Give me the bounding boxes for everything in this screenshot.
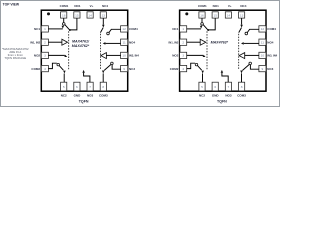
driver buffer B (IN3, IN4) U2 <box>239 53 245 59</box>
switch SW4 position arrow U1 <box>102 25 105 28</box>
switch SW4 pivot circle U1 <box>107 32 110 35</box>
svg-text:6: 6 <box>76 85 78 89</box>
wire NC3 to SW3 U1 <box>112 65 121 69</box>
svg-text:12: 12 <box>261 27 265 31</box>
pin 9 box (NC3) <box>121 65 128 71</box>
svg-text:GND: GND <box>212 93 220 97</box>
pin 4 box (COM2) <box>41 65 48 71</box>
svg-text:IN3, IN4: IN3, IN4 <box>267 54 277 58</box>
pin 14 box (V+) <box>225 12 231 18</box>
pin 11 box (NO4) <box>259 39 266 45</box>
switch SW3 pivot circle U2 <box>249 62 252 65</box>
svg-text:NO1: NO1 <box>213 4 220 8</box>
pin 6 box (GND) <box>74 82 80 91</box>
pin 16 box (COM1) <box>61 12 67 18</box>
svg-text:4: 4 <box>44 67 46 71</box>
pin 8 box (COM3) <box>100 82 106 91</box>
control line IN1 dashed U1 <box>68 31 70 69</box>
svg-text:NC1: NC1 <box>34 27 40 31</box>
svg-text:9: 9 <box>262 67 264 71</box>
pin 1 box (NC1) <box>180 26 187 32</box>
wire COM4 to SW4 U1 <box>109 29 121 32</box>
wire IN1 to buffer A U2 <box>187 41 201 43</box>
svg-text:14: 14 <box>88 14 92 18</box>
pin 3 box (NO2) <box>41 52 48 58</box>
svg-text:10: 10 <box>122 54 126 58</box>
contact NO1 junction dot U2 <box>207 29 209 31</box>
wire NC2 stem U2 <box>202 74 204 83</box>
switch SW3 pivot circle U1 <box>111 62 114 65</box>
pin 9 box (NC3) <box>259 65 266 71</box>
svg-text:NC4: NC4 <box>240 4 246 8</box>
svg-text:NC3: NC3 <box>267 67 273 71</box>
switch SW1 pivot circle U2 <box>201 23 204 26</box>
switch SW2 pivot circle U2 <box>195 63 198 66</box>
figure border frame <box>1 1 280 107</box>
wire NO3 stem U2 <box>222 73 228 83</box>
pin 7 box (NO3) <box>225 82 231 91</box>
svg-text:MAX4762*: MAX4762* <box>72 44 90 48</box>
svg-text:11: 11 <box>261 40 264 44</box>
wire COM1 stem U1 <box>63 18 65 22</box>
svg-text:4: 4 <box>182 67 184 71</box>
pin 3 box (NO2) <box>180 52 187 58</box>
svg-text:COM2: COM2 <box>31 67 40 71</box>
svg-text:MAX4761/: MAX4761/ <box>72 39 90 43</box>
pin 1 indicator dot U1 <box>47 12 50 15</box>
svg-text:TQFN: TQFN <box>217 100 227 104</box>
driver buffer A (IN1, IN2) U1 <box>62 39 68 45</box>
pin 12 box (COM4) <box>121 26 128 32</box>
pin 1 box (NC1) <box>41 26 48 32</box>
switch SW1 position arrow U2 <box>200 26 203 29</box>
svg-text:TQFN PACKAGE: TQFN PACKAGE <box>4 56 26 60</box>
switch SW2 contact arrow U2 <box>201 71 204 74</box>
pin 11 box (NO4) <box>121 39 128 45</box>
svg-text:V+: V+ <box>90 4 94 8</box>
wire NC3 to SW3 U2 <box>250 65 259 69</box>
svg-text:13: 13 <box>102 14 106 18</box>
svg-text:COM1: COM1 <box>198 4 207 8</box>
pin 13 box (NC4) <box>100 12 106 18</box>
switch SW2 lever U1 <box>59 66 63 71</box>
svg-text:2: 2 <box>182 40 184 44</box>
pin 6 box (GND) <box>212 82 218 91</box>
pin 5 box (NC2) <box>199 82 205 91</box>
svg-text:1: 1 <box>44 27 46 31</box>
svg-text:NC1: NC1 <box>172 27 178 31</box>
control line IN1 dashed U2 <box>206 31 208 69</box>
switch SW4 contact arrow U2 <box>241 42 244 45</box>
switch SW1 lever U1 <box>65 25 70 30</box>
svg-text:9: 9 <box>123 67 125 71</box>
switch SW2 contact arrow U1 <box>63 71 66 74</box>
switch SW2 lever U2 <box>198 66 202 71</box>
svg-text:NC2: NC2 <box>199 93 205 97</box>
switch SW4 position arrow U2 <box>240 25 243 28</box>
svg-text:NO3: NO3 <box>225 93 232 97</box>
pin 2 box (IN1, IN2) <box>180 39 187 45</box>
wire IN1 to buffer A U1 <box>48 41 62 43</box>
pin 10 box (IN3, IN4) <box>259 52 266 58</box>
switch SW3 throw arrow U2 <box>221 70 224 73</box>
driver buffer A (IN1, IN2) U2 <box>200 39 206 45</box>
svg-text:10: 10 <box>261 54 265 58</box>
wire COM2 to SW2 U1 <box>48 63 56 68</box>
pin 16 box (COM1) <box>199 12 205 18</box>
svg-text:NO2: NO2 <box>172 54 179 58</box>
pin 8 box (COM3) <box>239 82 245 91</box>
wire NO3 stem U1 <box>84 73 90 83</box>
switch SW3 contact arrow U2 <box>240 71 243 74</box>
pin 1 indicator dot U2 <box>185 12 188 15</box>
svg-text:5: 5 <box>63 85 65 89</box>
svg-text:8: 8 <box>241 85 243 89</box>
svg-text:NC4: NC4 <box>102 4 108 8</box>
wire IN3 to buffer B U1 <box>106 54 120 56</box>
switch SW1 lever U2 <box>203 25 208 30</box>
switch SW3 lever U1 <box>104 65 111 71</box>
svg-text:14: 14 <box>227 14 231 18</box>
svg-text:1: 1 <box>182 27 184 31</box>
switch SW3 throw arrow U1 <box>82 70 85 73</box>
wire COM3 stem U2 <box>241 73 243 82</box>
svg-text:13: 13 <box>240 14 244 18</box>
svg-text:3: 3 <box>44 54 46 58</box>
wire COM3 stem U1 <box>102 73 104 82</box>
pin 7 box (NO3) <box>87 82 93 91</box>
svg-text:IN1, IN2: IN1, IN2 <box>30 40 40 44</box>
svg-text:15: 15 <box>75 14 79 18</box>
svg-text:12: 12 <box>122 27 126 31</box>
svg-text:NC2: NC2 <box>61 93 67 97</box>
switch SW1 position arrow U1 <box>62 26 65 29</box>
svg-text:NO1: NO1 <box>74 4 81 8</box>
control line IN2 dashed U1 <box>99 34 101 69</box>
package body U1 (TQFN outline) <box>41 10 127 91</box>
switch SW2 throw arrow U1 <box>64 55 67 57</box>
pin 10 box (IN3, IN4) <box>121 52 128 58</box>
svg-text:NO3: NO3 <box>87 93 94 97</box>
svg-text:16: 16 <box>62 14 66 18</box>
pin 5 box (NC2) <box>61 82 67 91</box>
svg-text:11: 11 <box>122 40 125 44</box>
svg-text:15: 15 <box>213 14 217 18</box>
pin 13 box (NC4) <box>239 12 245 18</box>
switch SW4 lever U2 <box>239 28 242 33</box>
svg-text:NO4: NO4 <box>267 40 274 44</box>
pin 15 box (NO1) <box>212 12 218 18</box>
svg-text:COM1: COM1 <box>60 4 69 8</box>
switch SW1 pivot circle U1 <box>62 23 65 26</box>
pin 14 box (V+) <box>87 12 93 18</box>
switch SW2 throw arrow U2 <box>203 55 206 57</box>
svg-text:COM4: COM4 <box>129 27 138 31</box>
svg-text:TOP VIEW: TOP VIEW <box>3 3 20 7</box>
svg-text:5: 5 <box>201 85 203 89</box>
svg-text:COM3: COM3 <box>237 93 246 97</box>
wire NC4 stem U1 <box>102 18 104 25</box>
svg-text:NO2: NO2 <box>34 54 41 58</box>
pin 2 box (IN1, IN2) <box>41 39 48 45</box>
svg-text:IN1, IN2: IN1, IN2 <box>169 40 179 44</box>
pin 4 box (COM2) <box>180 65 187 71</box>
switch SW4 pivot circle U2 <box>245 32 248 35</box>
svg-text:NC3: NC3 <box>129 67 135 71</box>
wire NO4 to SW4 U2 <box>244 42 259 44</box>
wire NO2 to SW2 U2 <box>187 54 204 56</box>
svg-text:2: 2 <box>44 40 46 44</box>
contact NO1 junction dot U1 <box>69 29 71 31</box>
wire NC4 stem U2 <box>241 18 243 25</box>
wire NC1 to SW1 U2 <box>187 28 201 30</box>
wire COM1 stem U2 <box>201 18 203 22</box>
pin 12 box (COM4) <box>259 26 266 32</box>
wire NC2 stem U1 <box>63 74 65 83</box>
wire IN3 to buffer B U2 <box>245 54 259 56</box>
wire NO1 to SW1 U1 <box>71 18 77 30</box>
svg-text:NO4: NO4 <box>129 40 136 44</box>
svg-text:6: 6 <box>214 85 216 89</box>
switch SW4 contact arrow U1 <box>103 42 106 45</box>
switch SW3 contact arrow U1 <box>102 71 105 74</box>
switch SW4 lever U1 <box>100 28 103 33</box>
svg-text:7: 7 <box>89 85 91 89</box>
svg-text:COM3: COM3 <box>99 93 108 97</box>
wire COM2 to SW2 U2 <box>187 63 195 68</box>
switch SW2 pivot circle U1 <box>57 63 60 66</box>
control line IN2 dashed U2 <box>238 34 240 69</box>
svg-text:COM2: COM2 <box>170 67 179 71</box>
package body U2 (TQFN outline) <box>180 10 266 91</box>
switch SW3 lever U2 <box>243 65 250 71</box>
svg-text:IN3, IN4: IN3, IN4 <box>129 54 139 58</box>
svg-text:3: 3 <box>182 54 184 58</box>
wire NC1 to SW1 U1 <box>48 28 62 30</box>
svg-text:GND: GND <box>74 93 82 97</box>
svg-text:MAX4763*: MAX4763* <box>211 40 229 44</box>
wire COM4 to SW4 U2 <box>247 29 259 32</box>
svg-text:COM4: COM4 <box>267 27 276 31</box>
wire NO1 to SW1 U2 <box>209 18 215 30</box>
svg-text:8: 8 <box>102 85 104 89</box>
wire NO2 to SW2 U1 <box>48 54 65 56</box>
wire NO4 to SW4 U1 <box>105 42 120 44</box>
svg-text:V+: V+ <box>228 4 232 8</box>
svg-text:16: 16 <box>200 14 204 18</box>
pin 15 box (NO1) <box>74 12 80 18</box>
driver buffer B (IN3, IN4) U1 <box>101 53 107 59</box>
svg-text:7: 7 <box>228 85 230 89</box>
svg-text:TQFN: TQFN <box>79 100 89 104</box>
